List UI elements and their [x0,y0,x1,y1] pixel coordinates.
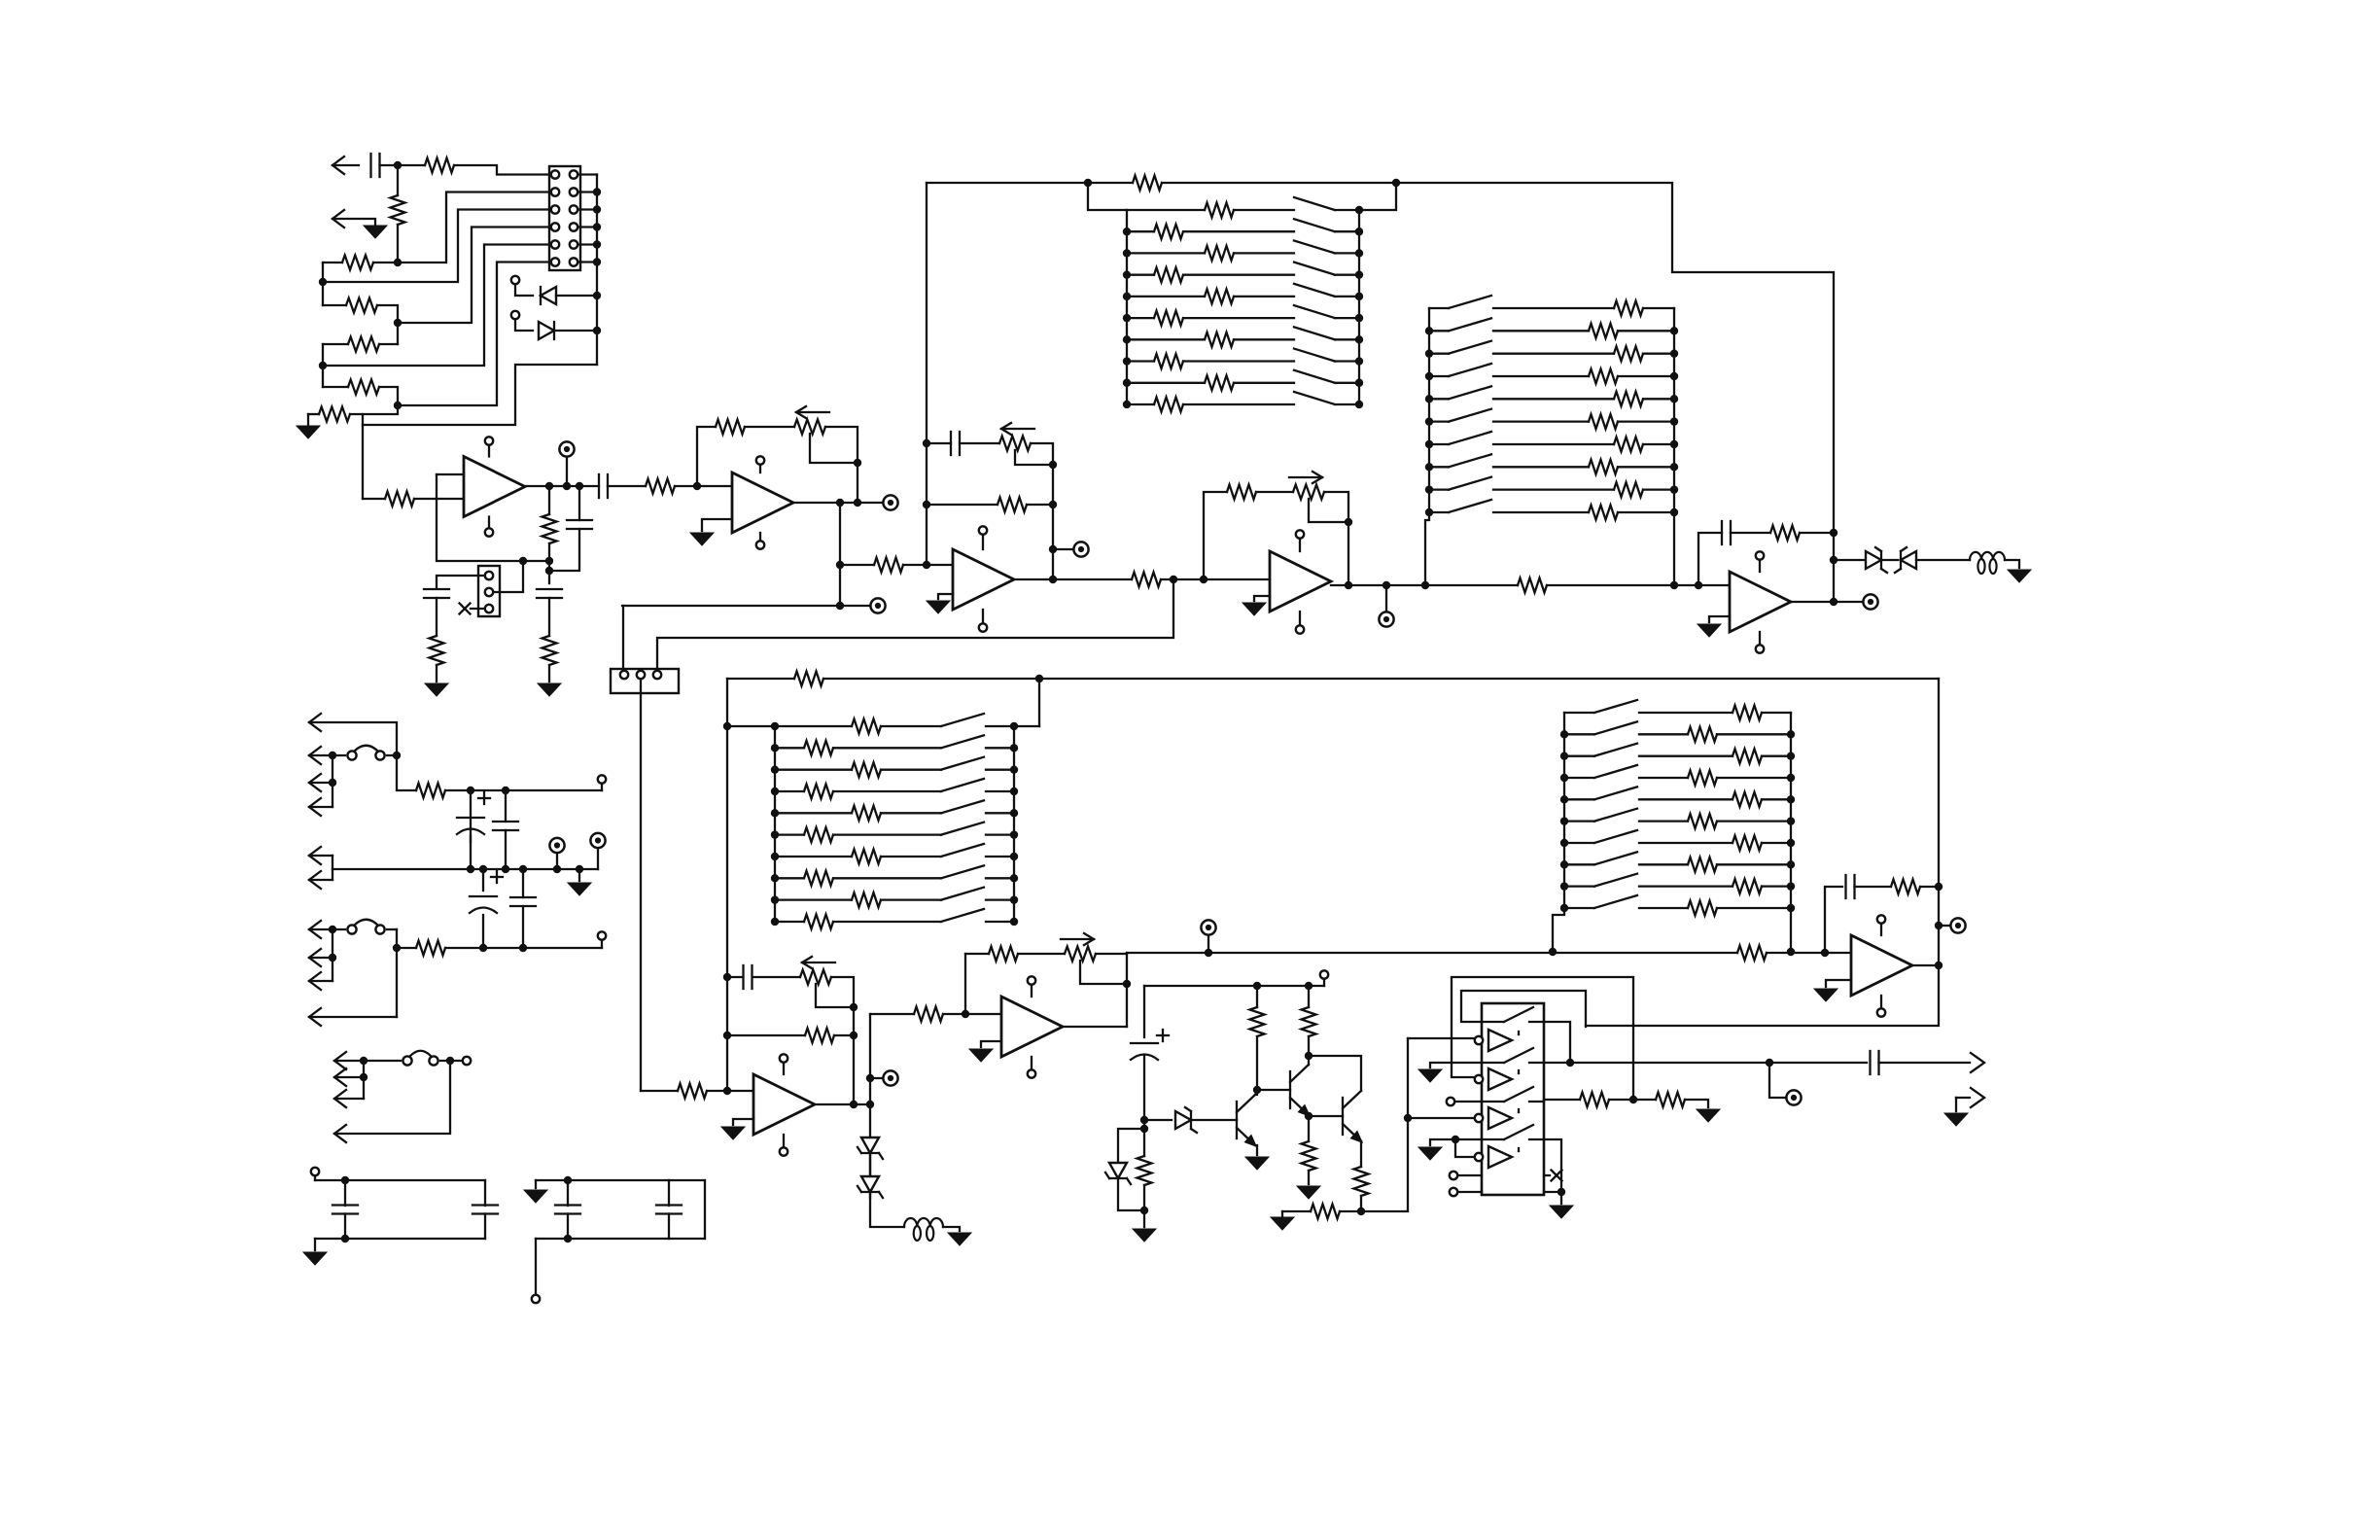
wire [548,665,550,682]
wire [775,769,852,771]
wire [1639,777,1688,779]
junction [1123,314,1131,322]
wire bank4 right bus [1790,713,1792,952]
wire [1493,398,1614,400]
ground [1814,989,1837,1001]
node [593,292,601,299]
node [923,501,930,508]
ground [2008,570,2031,582]
resistor bank3 row 5 [852,806,881,821]
switch bank3 row 4 [941,779,984,791]
wire [436,665,437,682]
wire row W3 [323,245,551,367]
node [1830,556,1837,564]
node A1 [394,161,402,169]
wire [668,1214,670,1240]
trim pot VR4 [800,970,831,985]
wire [601,940,603,948]
wire [1340,1210,1361,1212]
node [467,865,474,873]
wire [1564,798,1594,800]
switch bank3 row 10 [941,909,984,922]
junction [771,895,779,903]
junction [771,830,779,838]
capacitor C17 [472,1206,498,1214]
node A3 [319,278,327,286]
wire rail gnd [332,868,598,870]
wire [548,543,550,583]
resistor bank4 row 2 [1688,727,1717,742]
terminal [1447,1098,1454,1105]
switch bank4 row 9 [1594,874,1637,887]
wire [675,485,732,487]
wire [1429,488,1449,490]
wire [1879,1062,1971,1064]
trim pot VR5 [1065,947,1096,962]
fuse F2 [347,920,384,934]
junction [1670,440,1678,448]
terminal [549,838,564,853]
wire [759,465,761,472]
resistor R10 [542,636,557,665]
node [545,482,553,490]
wire [869,1014,871,1198]
resistor R29 [1302,1007,1316,1036]
ground [948,1233,971,1245]
switch bank4 row 7 [1594,830,1637,843]
node [1049,501,1057,508]
capacitor C12 electrolytic [457,792,490,834]
wire [1335,274,1359,276]
junction [1560,752,1568,759]
resistor R33 [1580,1093,1609,1107]
wire [350,405,398,414]
ground [297,426,320,438]
wire [515,284,533,296]
U6 V- pin [1028,1069,1035,1077]
wire [1430,1063,1482,1067]
node [1382,581,1390,589]
node [836,602,844,610]
wire [1639,733,1688,735]
wire [309,806,332,808]
connector pin P6 [309,871,321,889]
J4 pin 1 [620,671,628,679]
U7 V- pin [780,1147,787,1155]
J3 pin 3 [485,605,493,612]
wire [1429,307,1449,309]
trim pot arrow [802,957,835,968]
wire [943,1227,960,1231]
junction [1425,327,1433,334]
resistor R30 [1302,1141,1316,1171]
node [850,1003,857,1011]
wire pot wiper [1015,450,1053,465]
junction [1355,357,1363,365]
wire [775,898,852,900]
wire [1639,863,1688,865]
junction [360,1073,367,1081]
wire [840,605,870,607]
U1 V+ pin [485,437,493,444]
switch bank2 row 5 [1449,386,1491,399]
junction [1787,817,1795,824]
wire [1183,360,1294,362]
header pin L5 [551,240,559,248]
connector pin P7 [309,921,321,938]
wire [1256,986,1258,1007]
connector pin P3 [309,774,321,791]
resistor R26 [989,947,1018,962]
wire [1014,725,1039,727]
trim pot arrow [796,406,829,418]
node [1049,545,1057,553]
header pin R5 [570,240,577,248]
capacitor C16 [332,1206,358,1214]
wire [577,191,597,192]
junction [1123,249,1131,257]
resistor R8 [385,492,414,507]
wire [1335,403,1359,405]
wire [833,877,941,879]
wire [870,1077,884,1079]
wire [1564,885,1594,887]
wire [1767,952,1851,954]
wire [314,1175,316,1180]
resistor bank2 row 1 [1614,301,1643,316]
ground [1418,1069,1442,1082]
resistor R22 series [1737,946,1767,961]
wire [397,165,399,195]
junction [593,205,601,213]
IC U8 cell 2 control pin [1475,1075,1483,1083]
switch bank2 row 1 [1449,296,1491,308]
wire bank1 right bus [1358,210,1360,404]
wire [471,608,485,610]
terminal [1320,970,1328,978]
junction [1010,722,1018,730]
wire [323,343,348,345]
switch bank3 row 5 [941,800,984,813]
resistor bank4 row 4 [1688,771,1717,786]
resistor R6 [348,380,379,395]
IC U8 switch cell 1 [1482,1007,1544,1051]
wire [549,529,579,571]
wire [927,442,951,444]
wire [1361,1038,1408,1211]
resistor R11 [646,479,675,494]
wire [470,836,472,869]
no-connect mark [460,604,471,614]
resistor R9 [542,514,557,543]
resistor bank3 row 3 [852,762,881,777]
wire [965,953,989,955]
wire gnd stub [733,1119,753,1125]
node [854,459,861,467]
op-amp U3 [953,549,1014,610]
wire [1088,182,1133,184]
ground [1697,1109,1720,1122]
wire [1127,209,1205,211]
wire [1127,403,1154,405]
wire [536,1179,705,1181]
wire [1143,1185,1145,1227]
wire [1685,1100,1708,1107]
wire U9 out [1912,964,1939,966]
junction [1010,765,1018,773]
resistor bank2 row 10 [1589,506,1618,520]
wire main left bus [726,679,728,1091]
wire [1731,532,1770,534]
node [923,439,930,447]
switch bank2 row 9 [1449,477,1491,490]
switch bank1 row 9 [1294,370,1335,383]
diode D1 [541,287,556,304]
wire [1639,820,1688,822]
ground [1271,1217,1294,1230]
wire [1452,977,1633,1100]
terminal [883,495,897,509]
node [393,944,401,952]
node [850,1101,857,1108]
junction [1123,357,1131,365]
op-amp U4 [1270,551,1331,612]
wire [1335,209,1359,211]
wire [839,503,841,606]
wire [1018,953,1065,955]
wire [1639,798,1732,800]
wire [309,722,397,755]
wire [1618,466,1674,468]
header pin L6 [551,258,559,265]
wire [398,164,425,166]
capacitor C15 [510,897,536,906]
junction [1670,395,1678,402]
resistor bank3 row 8 [804,871,833,886]
wire [344,1214,346,1240]
node [1170,576,1177,583]
trim pot arrow [1001,423,1034,435]
switch bank4 row 8 [1594,852,1637,864]
switch bank3 row 9 [941,888,984,900]
wire [1618,330,1674,332]
node [564,1176,572,1184]
wire [775,921,804,923]
wire rail V+ [445,789,602,791]
wire [1493,511,1589,513]
wire [1127,360,1154,362]
resistor R37 [416,941,445,956]
resistor R25 [914,1007,943,1022]
U4 V+ pin [1296,530,1304,538]
wire [1564,755,1594,757]
header pin R4 [570,223,577,230]
wire [1031,1057,1032,1069]
wire [1408,1117,1475,1119]
terminal [463,1057,471,1065]
ground [1697,624,1721,637]
resistor R36 [416,784,445,798]
wire [1717,863,1791,865]
capacitor C9 electrolytic [1131,1030,1169,1060]
ground [538,683,561,696]
terminal [1379,612,1393,626]
resistor bank2 row 6 [1589,414,1618,429]
node [1253,1086,1261,1094]
resistor bank2 row 8 [1589,460,1618,474]
wire [783,1135,785,1147]
junction [1123,379,1131,387]
connector pin P5 [309,847,321,864]
wire [1643,307,1674,309]
wire [1323,979,1325,986]
wire [1234,338,1294,340]
wire [1769,1062,1867,1064]
junction [1425,440,1433,448]
resistor bank3 row 7 [852,850,881,864]
node [1205,949,1212,957]
wire [437,576,485,588]
junction [1123,401,1131,408]
IC U8 switch cell 4 [1482,1125,1544,1168]
capacitor C2 [537,589,562,598]
connector J3 [478,566,500,616]
node [1049,576,1057,583]
resistor R24 [805,1029,834,1043]
connector pin P1 V+ [309,714,321,731]
wire bank2 right bus [1673,308,1675,585]
wire [834,1034,854,1036]
wire bank4 left bus [1553,713,1564,952]
wire [484,1180,486,1206]
wire [986,769,1014,771]
junction [1560,817,1568,824]
wire [745,426,794,428]
wire riser [1359,183,1396,210]
junction [771,722,779,730]
junction [1355,379,1363,387]
wire [1855,886,1892,888]
wire [332,755,333,807]
terminal [311,1168,319,1175]
node [1392,179,1400,187]
terminal [532,1295,540,1303]
connector J4 [611,669,679,693]
resistor bank1 row 8 [1154,354,1183,368]
junction [1425,372,1433,380]
U2 V+ pin [756,456,764,464]
wire [986,747,1014,749]
wire Q3 collector [1309,1056,1361,1091]
wire [577,243,597,245]
wire [982,535,984,549]
connector pin output L [1971,1053,1984,1072]
diode D2 [539,322,554,339]
wire [567,1180,569,1206]
wire [309,855,332,857]
terminal [511,311,519,319]
wire [775,812,852,814]
ground [1944,1113,1968,1126]
ground [1245,1157,1269,1170]
wire [1639,712,1732,714]
op-amp U1 [464,457,525,517]
wire [1183,317,1294,319]
wire [704,1180,706,1239]
capacitor C19 [656,1206,682,1214]
U2 V- pin [756,541,764,548]
wire [1461,991,1586,1027]
wire [363,498,385,500]
junction [1560,795,1568,803]
U5 V- pin [1756,645,1764,652]
ground [969,1049,993,1062]
node A2 [394,259,402,266]
wire [379,343,398,345]
junction [393,752,401,759]
J4 pin 2 [637,671,645,679]
node [360,1057,367,1065]
wire [309,782,332,784]
wire [1639,842,1732,844]
wire [1759,632,1761,645]
wire [323,386,348,388]
wire [1309,1115,1343,1117]
wire [1544,1022,1570,1063]
J3 pin 2 [485,588,493,596]
resistor R20 [1770,526,1800,541]
resistor R23 [678,1084,707,1099]
wire [1335,338,1359,340]
wire U4 out [1331,584,1425,586]
node [576,865,583,873]
wire feedback leg [697,427,716,486]
wire [775,747,804,749]
node [923,561,930,569]
op-amp U6 [1001,997,1063,1057]
wire [436,598,437,636]
node A5 [319,362,327,369]
wire [309,928,345,930]
resistor bank1 row 2 [1154,225,1183,239]
junction [771,744,779,752]
resistor bank1 row 10 [1154,398,1183,412]
node [1253,982,1261,990]
op-amp U2 [732,472,793,533]
wire [505,790,507,822]
wire gnd stub [981,1041,1001,1047]
wire [315,1179,485,1181]
junction [1355,314,1363,322]
switch bank2 row 8 [1449,454,1491,467]
wire [309,879,332,881]
switch bank1 row 8 [1294,349,1335,362]
wire [881,856,941,857]
junction [1355,206,1363,214]
junction [1787,795,1795,803]
no-connect mark [1552,1171,1562,1181]
trim pot VR3 [1293,485,1324,500]
resistor bank4 row 5 [1732,792,1762,807]
wire [1916,559,1970,561]
wire row W4 [398,262,551,406]
wire [668,1180,670,1206]
junction [1123,227,1131,235]
wire row W1 [323,210,551,283]
zener D8 [1105,1163,1131,1184]
resistor bank1 row 4 [1154,267,1183,282]
header pin R1 [570,170,577,178]
